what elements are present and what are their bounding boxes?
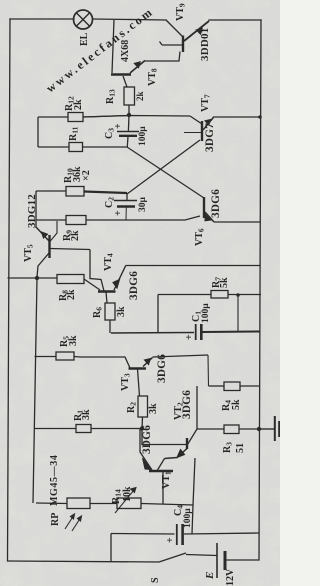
capacitor C4 (177, 524, 183, 545)
VT5 collector to R9 wire (50, 221, 58, 242)
right rail (259, 20, 261, 560)
vertical wire R7 row to C1 row (237, 295, 239, 332)
vertical C4 to bottom wire (110, 534, 112, 563)
capacitor C2 (114, 193, 137, 220)
VT2 emitter arrow (177, 450, 185, 458)
wire C4 row (111, 533, 175, 536)
vertical wire R4 row to VT2 collector (196, 386, 198, 429)
wire left rail to R8 (8, 277, 58, 279)
RP light arrows (65, 514, 82, 531)
resistor R13 (124, 87, 135, 105)
wire RP row (36, 502, 67, 505)
left rail (8, 19, 11, 561)
wire VT4 emitter to right rail (126, 265, 261, 267)
transistor VT6 (204, 197, 260, 222)
VT8 emitter arrow (135, 62, 141, 68)
resistor R1 (34, 428, 76, 430)
VT7 base lead stub (184, 132, 201, 134)
resistor R10 (36, 190, 66, 192)
thick wire R10 to C2 (84, 192, 127, 194)
resistor R11 (38, 146, 69, 148)
transistor VT4 (98, 266, 126, 304)
wire top to lamp (10, 18, 74, 20)
wire C1 horizontal (111, 332, 194, 335)
switch S (159, 553, 186, 562)
bottom wire (8, 561, 160, 562)
wire bracket R12-R11 (37, 117, 39, 147)
junction dot R7 wire (236, 293, 240, 297)
resistor R8 (57, 275, 84, 284)
wire diagonal A (C3 to VT6 base) (127, 147, 204, 198)
junction dot right rail VT7 (258, 115, 262, 119)
ground (259, 416, 279, 441)
transistor VT9 (160, 20, 210, 52)
resistor R12 (38, 116, 68, 118)
resistor R7 (157, 295, 159, 333)
transistor VT8 (111, 20, 180, 87)
VT9 emitter arrow (197, 29, 203, 35)
photoresistor RP (67, 498, 90, 509)
resistor R5 (35, 356, 57, 358)
junction dot ground (257, 427, 261, 431)
wire VT5 base to VT4 collector (90, 250, 104, 292)
transistor VT3 (80, 355, 208, 396)
wire VT9 emitter to right rail (209, 19, 261, 21)
resistor R6 (105, 303, 115, 320)
lamp EL (74, 10, 93, 29)
resistor R2 (138, 396, 148, 417)
capacitor C3 (117, 115, 139, 147)
wire bracket R10-R9 (35, 191, 37, 228)
second rail down (33, 278, 37, 503)
capacitor C1 (196, 324, 202, 340)
VT5 emitter arrow (42, 232, 48, 238)
wire lamp to VT9 (93, 19, 166, 20)
VT3 emitter arrow (145, 359, 151, 365)
vertical wire VT3 emitter down to R4 row (207, 355, 210, 386)
potentiometer R14 (117, 498, 141, 509)
VT1 emitter arrow (143, 458, 152, 470)
junction dot under R2 (140, 426, 144, 430)
transistor VT2 (142, 429, 197, 506)
node A junction dot (127, 113, 131, 117)
transistor VT7 (190, 116, 261, 141)
wire diagonal B (C2 to VT7 base) (127, 140, 200, 194)
resistor R9 (36, 219, 66, 221)
battery E (217, 543, 225, 578)
transistor VT5 (36, 227, 90, 277)
VT7 emitter arrow (205, 120, 211, 125)
resistor R3 (197, 428, 224, 430)
transistor VT1 (140, 429, 173, 505)
VT6 emitter arrow (205, 215, 211, 221)
wire node A horizontal (83, 116, 190, 118)
wire C2/R9 to VT6 base (126, 216, 201, 220)
junction dot left (35, 276, 39, 280)
resistor R4 (209, 385, 225, 387)
VT4 emitter arrow (113, 280, 120, 289)
